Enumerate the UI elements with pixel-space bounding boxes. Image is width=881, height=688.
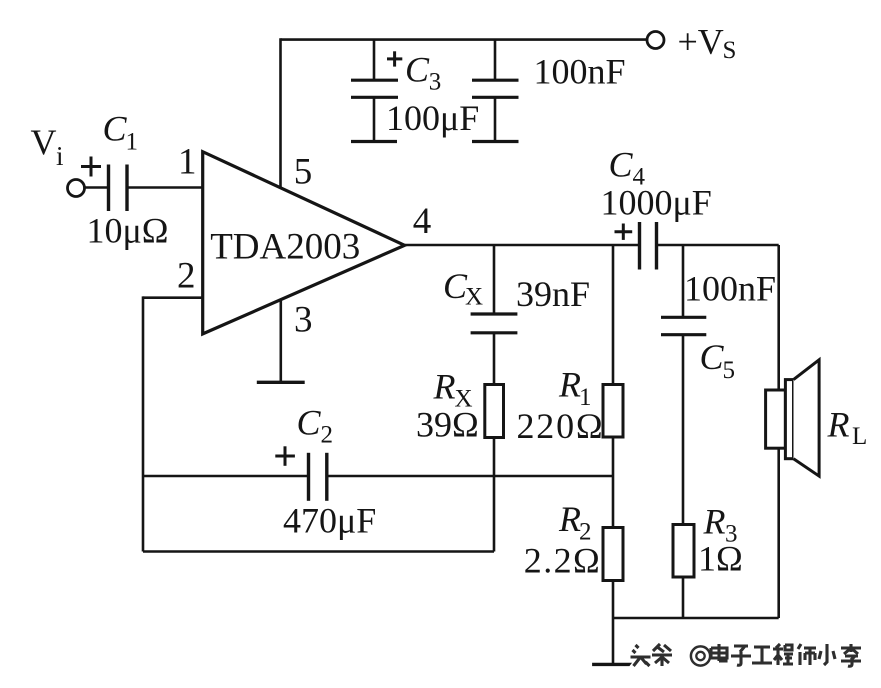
svg-text:1Ω: 1Ω <box>698 539 743 579</box>
svg-text:X: X <box>465 284 483 311</box>
svg-text:5: 5 <box>294 152 313 193</box>
plus sign for C3 <box>387 51 402 66</box>
ground at bottom <box>592 663 635 666</box>
svg-text:1: 1 <box>126 129 139 156</box>
plus sign for C4 <box>615 224 633 240</box>
wire RX bottom to wire B <box>493 438 496 552</box>
capacitor 100nF supply bypass <box>472 40 519 142</box>
svg-text:1: 1 <box>178 141 197 182</box>
wire B lower feedback to RX <box>143 550 494 553</box>
ground at pin3 <box>257 381 305 384</box>
resistor R2 2.2ohm <box>603 528 623 581</box>
resistor R3 1ohm <box>673 525 694 578</box>
svg-text:C: C <box>297 403 322 443</box>
svg-text:100nF: 100nF <box>534 52 626 92</box>
svg-text:3: 3 <box>294 300 313 341</box>
wire R1 to R2 <box>612 438 615 528</box>
resistor R1 220ohm <box>603 385 623 438</box>
plus sign for C2 <box>275 446 295 466</box>
svg-text:3: 3 <box>429 69 442 96</box>
svg-text:100μF: 100μF <box>386 98 479 138</box>
svg-text:V: V <box>31 122 57 162</box>
svg-text:1000μF: 1000μF <box>601 183 712 223</box>
wire top supply rail <box>281 38 647 41</box>
svg-text:L: L <box>852 423 867 450</box>
svg-text:i: i <box>56 141 64 171</box>
wire pin2 stub <box>143 296 203 299</box>
capacitor C2 (electrolytic 470uF) <box>309 453 327 501</box>
wire R2 bottom to bottom rail <box>612 581 615 619</box>
wire CX to RX <box>493 334 496 385</box>
svg-text:470μF: 470μF <box>283 501 376 541</box>
wire bottom rail <box>613 617 779 620</box>
wire A from C2 right to R1/R2 branch <box>328 475 613 478</box>
wire output pin4 to C4 <box>405 244 639 247</box>
resistor RX 39ohm <box>485 385 504 438</box>
wire ground stub bottom <box>612 618 615 664</box>
speaker RL <box>766 360 820 476</box>
wire A feedback (to C2 left) <box>143 475 307 478</box>
wire C5 branch from output <box>682 245 685 316</box>
svg-text:C: C <box>700 337 725 377</box>
plus sign at input <box>81 157 101 177</box>
capacitor C4 (electrolytic 1000uF) <box>640 222 657 270</box>
svg-text:R: R <box>433 367 456 407</box>
terminal +VS <box>647 32 664 49</box>
op-amp U1 TDA2003 triangle <box>203 152 405 334</box>
wire CX branch from output <box>493 245 496 313</box>
capacitor C5 100nF <box>661 317 706 334</box>
svg-text:100nF: 100nF <box>684 269 776 309</box>
wire pin5 vertical from rail to op-amp <box>279 38 282 189</box>
svg-text:2: 2 <box>177 255 196 296</box>
svg-text:C: C <box>103 109 128 149</box>
wire C4 to speaker branch <box>658 244 779 247</box>
svg-text:R: R <box>558 499 581 539</box>
wire C5 to R3 <box>682 336 685 525</box>
svg-text:TDA2003: TDA2003 <box>210 227 360 268</box>
svg-text:R: R <box>558 365 581 405</box>
svg-text:4: 4 <box>413 201 432 242</box>
svg-text:C: C <box>405 50 430 90</box>
wire input to C1 <box>85 186 108 189</box>
svg-text:R: R <box>827 405 850 445</box>
svg-text:220Ω: 220Ω <box>517 406 605 446</box>
svg-text:C: C <box>609 145 634 185</box>
wire C1 to pin1 <box>129 186 204 189</box>
svg-text:2.2Ω: 2.2Ω <box>524 541 601 581</box>
wire R3 bottom to bottom rail <box>682 577 685 618</box>
capacitor C1 <box>109 165 128 212</box>
svg-text:39Ω: 39Ω <box>416 405 479 445</box>
wire R1 branch vertical <box>612 245 615 385</box>
wire pin2 vertical down <box>142 296 145 551</box>
svg-text:10μΩ: 10μΩ <box>87 211 169 251</box>
svg-text:R: R <box>703 502 726 542</box>
svg-text:39nF: 39nF <box>516 274 590 314</box>
capacitor CX 39nF <box>471 314 518 333</box>
svg-text:5: 5 <box>723 357 736 384</box>
svg-text:S: S <box>723 37 737 64</box>
svg-text:2: 2 <box>321 422 334 449</box>
wire pin3 vertical <box>279 299 282 381</box>
svg-text:+V: +V <box>678 21 724 61</box>
wire speaker branch vertical <box>777 245 780 618</box>
capacitor C3 (electrolytic 100uF) <box>351 40 398 142</box>
terminal Vi input <box>68 180 85 197</box>
